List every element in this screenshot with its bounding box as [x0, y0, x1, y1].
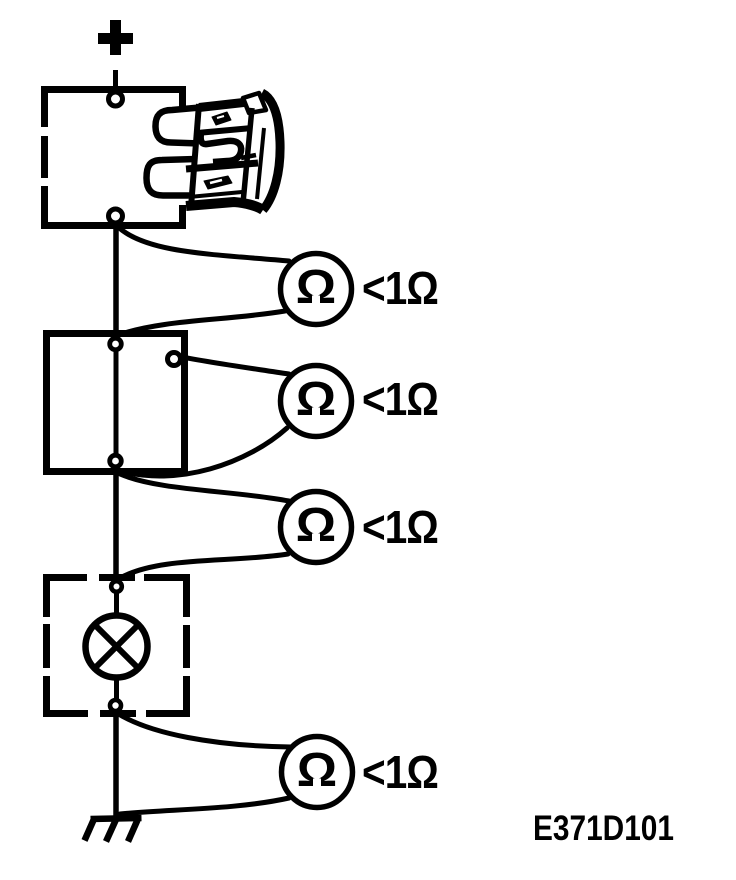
ohmmeter 1	[281, 254, 352, 325]
node: lamp box bottom terminal	[110, 700, 121, 711]
fuse divider line lower	[186, 163, 258, 169]
wire inside relay box	[114, 346, 119, 460]
fuse box (dashed connector box)	[41, 86, 186, 229]
ohmmeter 3	[281, 492, 352, 563]
node: relay top terminal	[110, 338, 122, 350]
fuse body white face	[188, 93, 283, 212]
lamp (circle with X)	[86, 616, 148, 678]
fuse F (blade fuse illustration)	[147, 93, 284, 212]
ground symbol	[85, 818, 142, 842]
fuse front right edge	[243, 108, 252, 203]
wire: lamp box to ground	[113, 712, 119, 819]
test lead: relay bottom to ohmmeter 3	[120, 474, 289, 501]
fuse window mark lower	[204, 176, 232, 189]
test lead: relay top to ohmmeter 2	[119, 337, 289, 374]
svg-text:<1Ω: <1Ω	[362, 262, 438, 314]
wire: relay box to lamp box	[113, 468, 119, 583]
fuse top cap facet	[243, 93, 266, 113]
wire: fuse box to relay box	[113, 223, 119, 340]
node: relay auxiliary terminal	[168, 353, 181, 366]
node: fuse box top terminal	[109, 92, 123, 106]
fuse bottom band	[186, 202, 263, 210]
fuse window mark upper	[212, 112, 231, 125]
svg-text:E371D101: E371D101	[533, 809, 674, 848]
node: relay bottom terminal	[110, 455, 122, 467]
wire inside lamp box upper	[114, 590, 119, 617]
svg-text:Ω: Ω	[297, 743, 337, 797]
wire from + to fuse box	[113, 70, 118, 89]
lamp box (dashed)	[43, 574, 190, 717]
battery positive terminal (+)	[98, 20, 133, 55]
fuse bottom thin line	[189, 192, 242, 197]
test lead: ohmmeter 3 to lamp top	[120, 554, 288, 578]
fuse right side band	[262, 93, 280, 210]
svg-text:Ω: Ω	[296, 498, 336, 552]
svg-text:<1Ω: <1Ω	[362, 746, 438, 798]
fuse element tail	[241, 155, 256, 158]
fuse blade upper prong	[156, 108, 201, 144]
node: fuse box bottom terminal	[109, 209, 123, 223]
svg-text:Ω: Ω	[296, 260, 336, 314]
svg-text:<1Ω: <1Ω	[362, 501, 438, 553]
ohmmeter 2	[281, 366, 352, 437]
relay/switch box (solid)	[47, 334, 185, 472]
test lead: ohmmeter 1 to relay top	[118, 311, 285, 335]
fuse body top band	[199, 97, 261, 108]
fuse body left edge	[191, 104, 199, 207]
test lead: ohmmeter 4 to ground wire	[120, 798, 289, 814]
wire inside lamp box lower	[114, 679, 119, 703]
node: lamp box top terminal	[111, 581, 122, 592]
fuse divider line upper	[197, 128, 252, 133]
fuse element (S shape)	[201, 133, 241, 162]
test lead: lamp bottom to ohmmeter 4	[117, 713, 291, 747]
svg-text:<1Ω: <1Ω	[362, 373, 438, 425]
svg-text:Ω: Ω	[296, 372, 336, 426]
test lead: fuse bottom to ohmmeter 1	[117, 226, 289, 261]
test lead: ohmmeter 2 to relay bottom	[117, 428, 287, 476]
fuse side face line	[257, 128, 264, 199]
ohmmeter 4	[282, 737, 353, 808]
fuse blade lower prong	[147, 159, 197, 196]
